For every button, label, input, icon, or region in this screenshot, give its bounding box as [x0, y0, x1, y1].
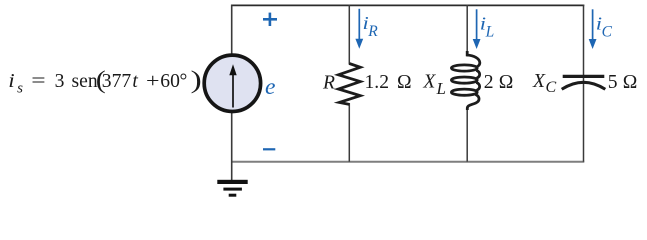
equation i_s = 3 sen(377t + 60°) [8, 65, 202, 96]
current arrow iR [355, 9, 363, 49]
resistor R1 zigzag [338, 64, 360, 105]
wire L branch bottom [466, 106, 468, 162]
svg-text:X: X [422, 72, 436, 93]
svg-text:Ω: Ω [397, 72, 412, 93]
wire bottom bus [231, 161, 584, 163]
svg-text:Ω: Ω [623, 72, 638, 93]
svg-text:e: e [265, 74, 275, 100]
svg-text:2: 2 [484, 72, 494, 93]
wire source bottom to ground [231, 111, 233, 181]
svg-text:L: L [485, 24, 495, 41]
svg-text:t: t [132, 71, 138, 92]
svg-text:=: = [31, 70, 45, 92]
wire C branch [583, 5, 585, 162]
minus sign [263, 148, 275, 150]
inductor XL coil [451, 51, 479, 110]
plus sign [263, 13, 277, 26]
svg-text:C: C [602, 24, 613, 41]
svg-text:60: 60 [160, 71, 180, 92]
svg-text:3: 3 [55, 71, 65, 92]
current source circle [204, 55, 260, 111]
svg-text:R: R [322, 73, 335, 94]
svg-text:i: i [8, 70, 14, 92]
current arrow iC [589, 9, 597, 49]
svg-text:1.2: 1.2 [365, 72, 390, 93]
svg-text:X: X [532, 71, 546, 92]
current source arrow [229, 64, 236, 107]
capacitor XC plates [562, 76, 606, 89]
wire R branch top [348, 5, 350, 65]
svg-text:R: R [367, 23, 378, 40]
wire R branch bottom [348, 103, 350, 162]
svg-text:+: + [146, 70, 159, 92]
wire top bus [231, 4, 584, 6]
svg-text:sen: sen [72, 71, 98, 92]
svg-text:5: 5 [608, 72, 618, 93]
svg-text:L: L [436, 79, 446, 98]
current arrow iL [473, 9, 481, 49]
svg-text:): ) [191, 67, 202, 94]
wire source top [231, 5, 233, 56]
svg-text:°: ° [180, 71, 188, 92]
ground [217, 180, 247, 197]
svg-text:C: C [546, 79, 557, 96]
wire L branch top [466, 5, 468, 57]
svg-text:Ω: Ω [499, 72, 514, 93]
svg-text:377: 377 [102, 71, 132, 92]
svg-text:s: s [17, 81, 23, 97]
